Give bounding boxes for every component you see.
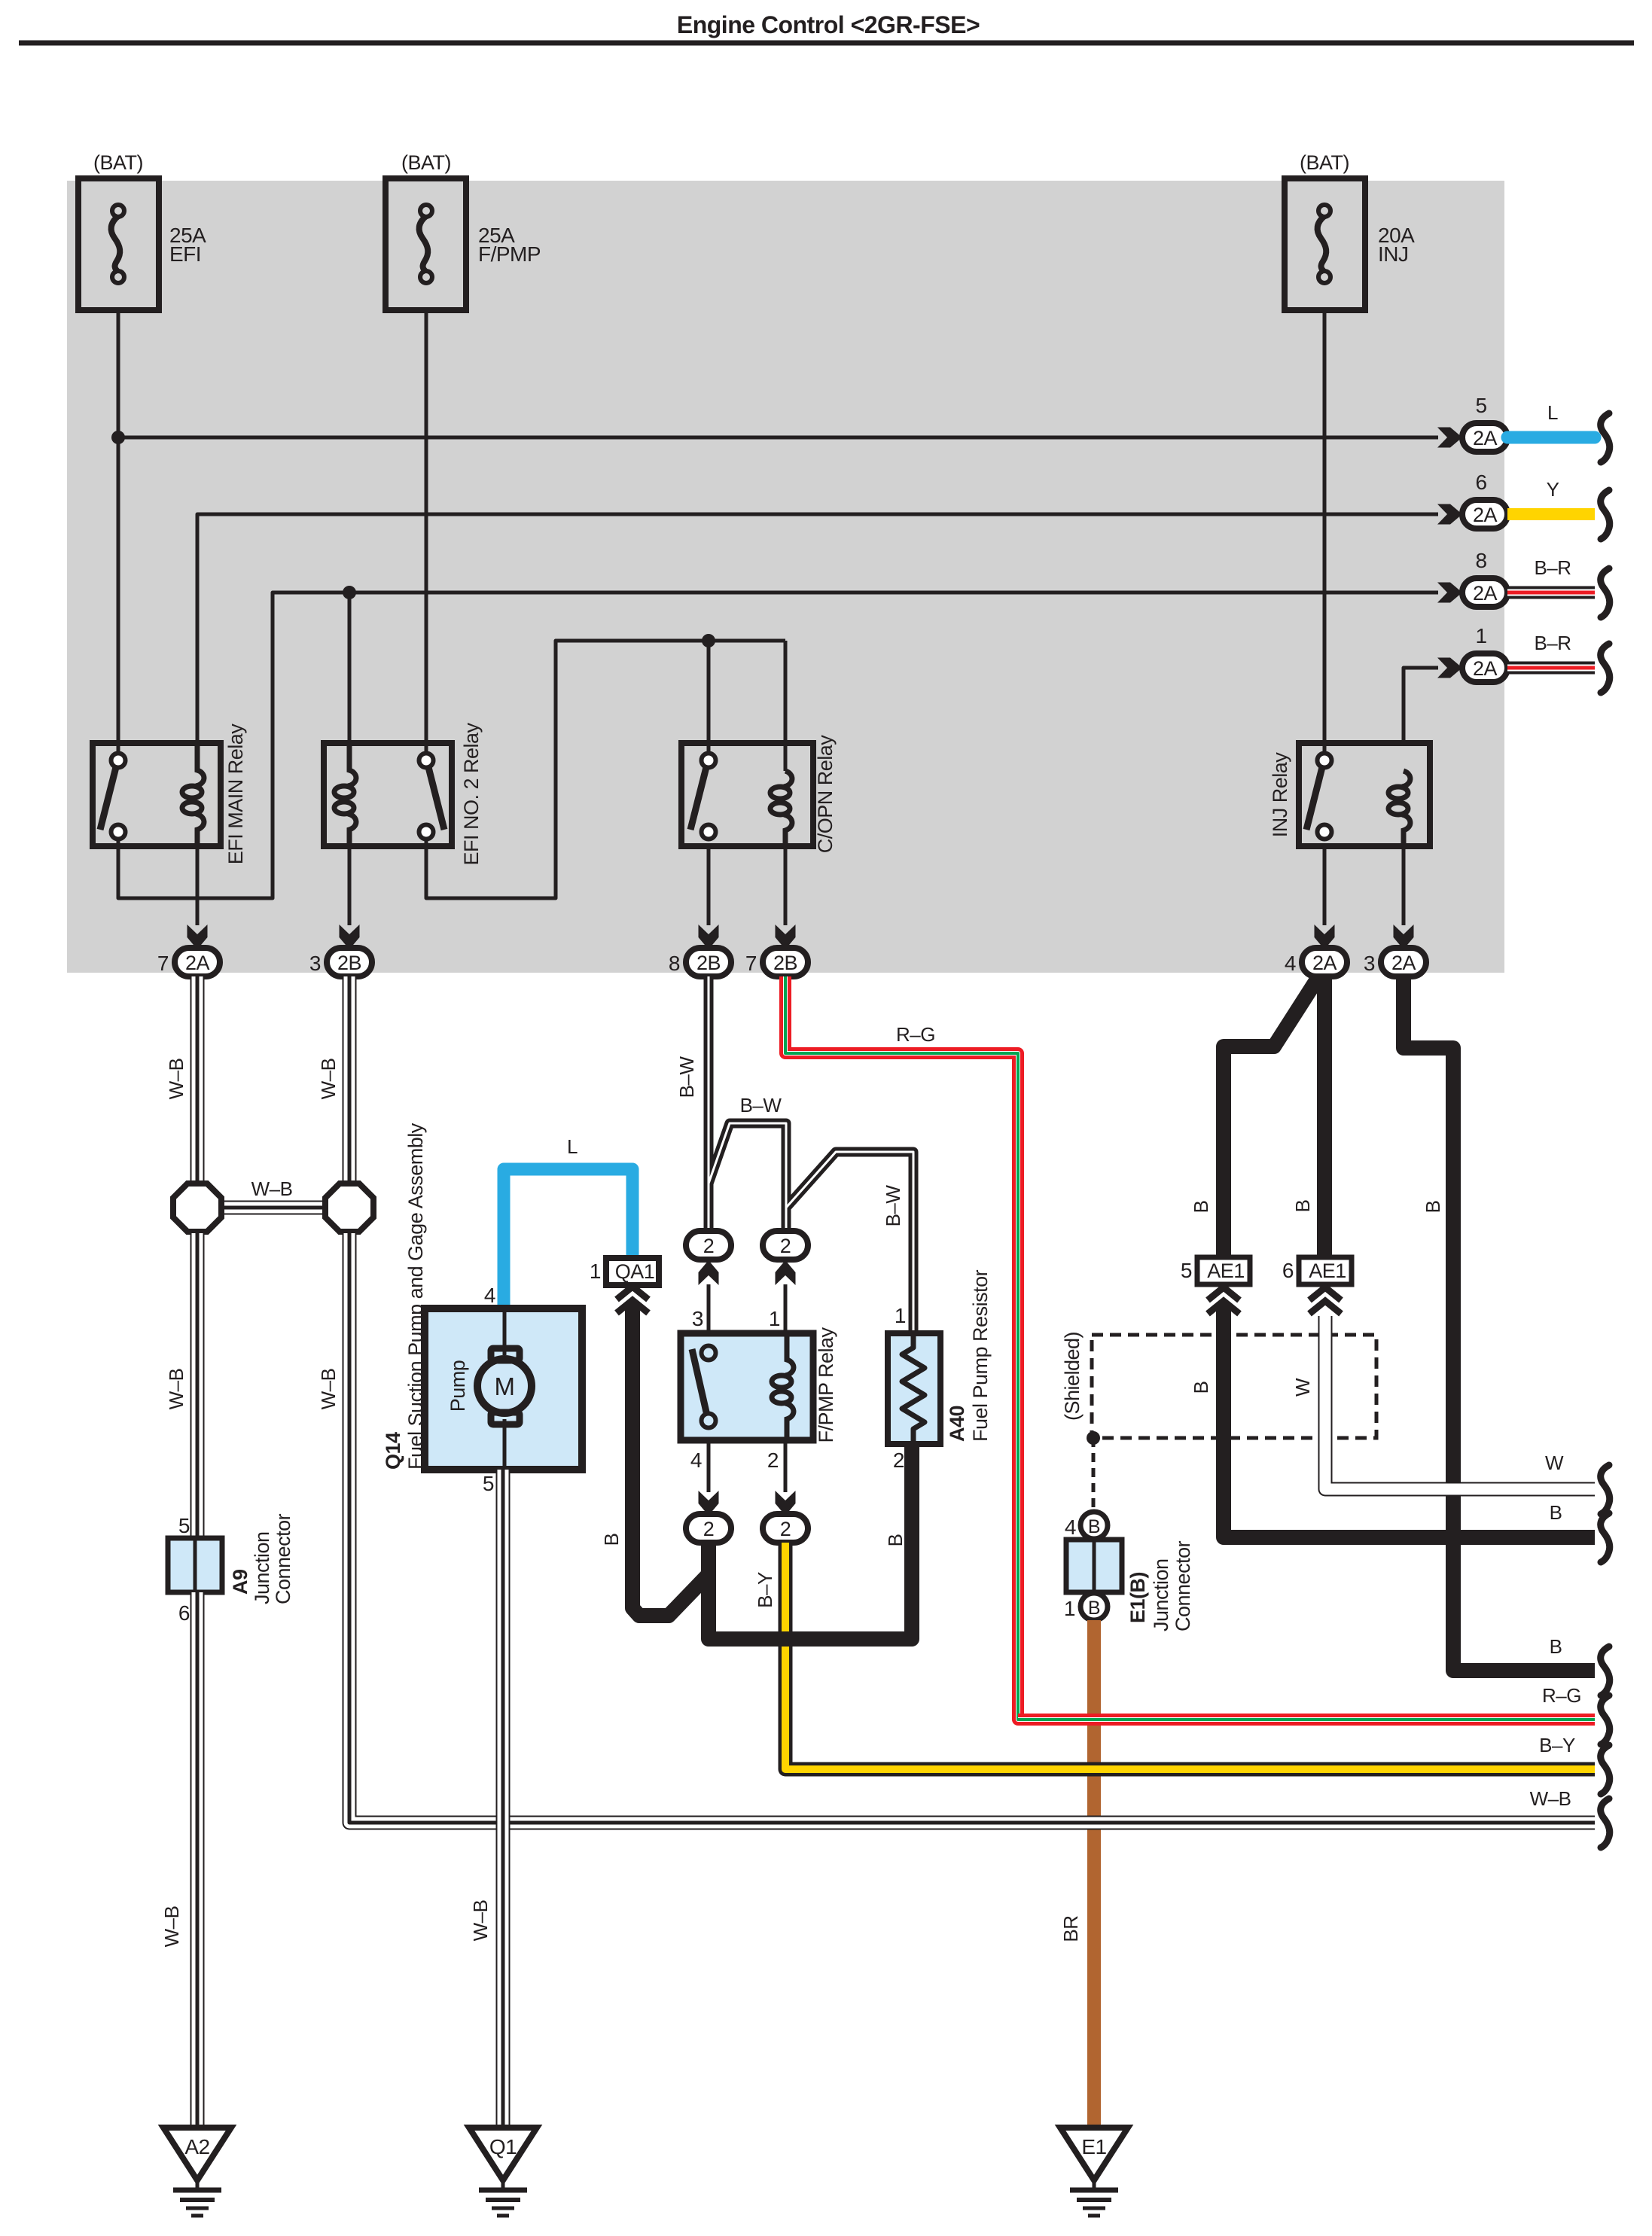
svg-text:1: 1 (769, 1307, 780, 1330)
svg-text:R–G: R–G (1542, 1684, 1581, 1707)
wire A40 internal top (911, 1333, 916, 1348)
svg-text:2B: 2B (773, 952, 797, 974)
svg-text:INJ Relay: INJ Relay (1269, 752, 1291, 838)
svg-text:2: 2 (703, 1235, 715, 1257)
label (BAT) F/PMP fuse (401, 151, 451, 174)
curly B-Y output (1601, 1745, 1610, 1794)
engine-room junction block (gray area) (67, 181, 1504, 973)
wire L (blue) pin 5 (1507, 431, 1595, 444)
curly pin 1 (1601, 644, 1610, 693)
connector pin 3 2A (1364, 948, 1426, 976)
wire EFI fuse to EFI MAIN relay switch (117, 310, 120, 760)
curly pin 8 (1601, 568, 1610, 617)
label R-G output (1542, 1684, 1581, 1707)
wire EFI NO.2 coil feed (348, 593, 352, 743)
arrow into pin 6 2A (1437, 504, 1462, 525)
wire EFI MAIN switch out to pin 8 2A (118, 593, 1438, 898)
relay F/PMP coil (772, 1333, 794, 1440)
label pin 5 Q14 (483, 1472, 494, 1495)
svg-text:E1: E1 (1081, 2135, 1106, 2158)
node EFI NO.2 coil branch (343, 586, 356, 599)
wire F/PMP pin 2 down (784, 1440, 788, 1492)
label B output (1550, 1635, 1562, 1658)
wire W-B between octagons (222, 1201, 324, 1215)
ground A2 (163, 2128, 231, 2216)
svg-text:B: B (1088, 1516, 1100, 1537)
fuse 25A F/PMP (386, 178, 541, 310)
wire W-B over BR (888, 1816, 1595, 1830)
svg-text:E1(B): E1(B) (1126, 1572, 1149, 1623)
svg-text:B: B (1291, 1200, 1314, 1213)
arrow into 3 2A (1394, 925, 1414, 949)
relay EFI MAIN switch (100, 754, 126, 839)
connector 2 (F/PMP pin 3) (686, 1231, 731, 1260)
svg-text:C/OPN Relay: C/OPN Relay (814, 735, 837, 854)
svg-text:AE1: AE1 (1309, 1260, 1346, 1282)
relay INJ switch (1306, 754, 1332, 839)
ground E1 (1060, 2128, 1128, 2216)
label W-B (317, 1369, 340, 1410)
svg-text:Junction: Junction (251, 1531, 273, 1604)
svg-text:3: 3 (1364, 952, 1375, 975)
wire relay out to pin 3 2A (1402, 846, 1406, 925)
svg-text:B–W: B–W (675, 1056, 698, 1098)
wire B-W 8 2B to F/PMP relay pin 3 connector (with branches to pin 1 and A40) (709, 976, 913, 1336)
svg-text:1: 1 (590, 1260, 601, 1283)
svg-text:Q1: Q1 (489, 2135, 517, 2158)
label (Shielded) (1061, 1332, 1084, 1421)
wire C/OPN coil feed (784, 641, 788, 771)
svg-text:7: 7 (745, 952, 757, 975)
svg-text:Junction: Junction (1150, 1558, 1172, 1631)
connector QA1 (590, 1258, 659, 1285)
svg-text:(BAT): (BAT) (401, 151, 451, 174)
svg-text:7: 7 (157, 952, 169, 975)
svg-text:2A: 2A (1391, 952, 1416, 974)
svg-text:2A: 2A (1312, 952, 1337, 974)
svg-text:6: 6 (178, 1601, 190, 1625)
svg-text:W–B: W–B (165, 1059, 187, 1100)
arrow chevrons QA1 (617, 1287, 648, 1313)
arrow chevrons 5 AE1 (1208, 1287, 1239, 1314)
wire W 6 AE1 to W output (1325, 1316, 1595, 1489)
wire relay out to pin 3 2B (348, 846, 352, 925)
label INJ Relay (1269, 752, 1291, 838)
svg-text:5: 5 (1181, 1259, 1192, 1282)
wire R-G over BR (1018, 1714, 1595, 1726)
svg-text:B–Y: B–Y (1539, 1734, 1575, 1756)
connector 6 AE1 (1282, 1257, 1352, 1284)
wire R-G 7 2B to output (785, 976, 1595, 1720)
curly B output (1601, 1647, 1610, 1695)
arrow chevrons 6 AE1 (1309, 1287, 1341, 1314)
relay INJ (box) (1299, 743, 1430, 846)
relay EFI NO. 2 (box) (324, 743, 452, 846)
arrow into 7 2A (187, 925, 208, 949)
svg-text:2A: 2A (185, 952, 210, 974)
wire B-Y over BR (888, 1762, 1595, 1777)
junction connector E1(B) (1066, 1540, 1122, 1592)
svg-text:Connector: Connector (272, 1513, 294, 1604)
svg-text:EFI: EFI (169, 242, 201, 266)
wire F/PMP pin 4 down (707, 1440, 711, 1492)
wire relay out to pin 4 2A (1323, 846, 1327, 925)
resistor zigzag A40 (902, 1336, 925, 1442)
svg-text:Fuel Pump Resistor: Fuel Pump Resistor (969, 1269, 992, 1442)
arrow into 2 (699, 1491, 719, 1516)
label Pump (447, 1360, 469, 1412)
svg-text:W–B: W–B (317, 1059, 340, 1100)
component A40 Fuel Pump Resistor (box) (888, 1333, 940, 1444)
svg-text:1: 1 (895, 1304, 906, 1327)
svg-text:F/PMP: F/PMP (478, 242, 541, 266)
label W-B (251, 1177, 293, 1200)
wire EFI NO.2 switch out to C/OPN relay (426, 641, 785, 898)
label B-W (882, 1185, 904, 1227)
label (BAT) EFI fuse (93, 151, 143, 174)
wire to pin 5 2A (118, 436, 1438, 440)
svg-text:W–B: W–B (317, 1369, 340, 1410)
svg-text:F/PMP Relay: F/PMP Relay (815, 1327, 837, 1442)
svg-text:Connector: Connector (1172, 1540, 1194, 1631)
label R-G (896, 1023, 935, 1046)
label Q14 name (382, 1123, 427, 1470)
wire C/OPN switch feed (707, 641, 711, 760)
pin 4 B circle (1065, 1512, 1108, 1539)
wire W-B A9 to ground A2 (190, 1592, 205, 2127)
wire W-B pump over crossing (496, 1799, 511, 1852)
svg-text:W–B: W–B (165, 1369, 187, 1410)
label pin 3 F/PMP relay (692, 1307, 703, 1330)
node EFI fuse branch (111, 431, 125, 444)
label W-B (160, 1906, 183, 1948)
arrow into pin 8 2A (1437, 583, 1462, 603)
wire W-B from 3 2B to octagon (343, 976, 357, 1182)
wire B 4 2A to 6 AE1 (1317, 976, 1332, 1257)
svg-text:8: 8 (1475, 549, 1486, 572)
wire INJ coil to pin 1 2A (1404, 668, 1438, 743)
svg-text:BR: BR (1059, 1915, 1082, 1942)
label C/OPN Relay (814, 735, 837, 854)
svg-text:Y: Y (1547, 478, 1559, 501)
connector 5 AE1 (1181, 1257, 1250, 1284)
label pin 1 F/PMP relay (769, 1307, 780, 1330)
label W (1291, 1378, 1314, 1397)
connector pin 8 2B (669, 948, 731, 976)
svg-text:2: 2 (703, 1518, 715, 1540)
arrow into 2 (776, 1260, 796, 1285)
svg-text:W–B: W–B (251, 1177, 293, 1200)
arrow into pin 5 2A (1437, 428, 1462, 448)
svg-text:(BAT): (BAT) (1300, 151, 1349, 174)
connector 2 (F/PMP pin 2) (763, 1514, 808, 1543)
wire B QA1 down-around to F/PMP pin 4 connector (632, 1304, 711, 1616)
connector pin 5 2A (1462, 394, 1507, 452)
node C/OPN switch branch (702, 634, 715, 647)
svg-text:4: 4 (484, 1284, 495, 1307)
svg-text:B–R: B–R (1534, 632, 1571, 654)
svg-text:W–B: W–B (160, 1906, 183, 1948)
svg-text:5: 5 (483, 1472, 494, 1495)
wire dashed shield to E1(B) (1092, 1438, 1096, 1511)
label W-B (317, 1059, 340, 1100)
svg-text:AE1: AE1 (1207, 1260, 1245, 1282)
svg-text:B: B (1190, 1382, 1212, 1394)
wire relay out to pin 8 2B (707, 846, 711, 925)
octagon connector left (173, 1183, 221, 1232)
wire relay out to pin 7 2B (784, 846, 788, 925)
label E1(B) Junction Connector (1126, 1540, 1194, 1631)
svg-text:B: B (884, 1534, 907, 1547)
wire Y (yellow) pin 6 (1507, 508, 1595, 520)
wire pump internal (503, 1308, 507, 1470)
arrow into 3 2B (340, 925, 360, 949)
label pin 2 A40 (893, 1449, 904, 1472)
label BR (1059, 1915, 1082, 1942)
svg-text:4: 4 (1065, 1516, 1076, 1539)
svg-text:EFI NO. 2 Relay: EFI NO. 2 Relay (460, 722, 483, 865)
wire W-B octagon to A9 (190, 1233, 205, 1540)
relay C/OPN (box) (681, 743, 813, 846)
svg-text:3: 3 (692, 1307, 703, 1330)
connector 2 (F/PMP pin 4) (686, 1514, 731, 1543)
label EFI NO. 2 Relay (460, 722, 483, 865)
svg-text:M: M (495, 1372, 515, 1400)
svg-text:B: B (600, 1534, 623, 1546)
relay EFI MAIN coil (182, 743, 204, 846)
wire relay out to pin 7 2A (196, 846, 200, 925)
wire EFI MAIN coil to pin 6 2A (197, 514, 1438, 743)
curly pin 6 (1601, 490, 1610, 539)
svg-text:A2: A2 (184, 2135, 209, 2158)
node shield ground tap (1087, 1431, 1100, 1445)
svg-text:R–G: R–G (896, 1023, 935, 1046)
arrow into 4 2A (1315, 925, 1335, 949)
arrow into 8 2B (699, 925, 719, 949)
svg-text:4: 4 (690, 1449, 702, 1472)
wire L (blue) pump to QA1 (504, 1169, 632, 1308)
svg-text:A40: A40 (946, 1406, 968, 1442)
svg-text:B–Y: B–Y (754, 1572, 776, 1608)
svg-text:8: 8 (669, 952, 680, 975)
label Y (1547, 478, 1559, 501)
svg-text:1: 1 (1475, 624, 1486, 647)
wire to F/PMP relay pin 3 (707, 1284, 711, 1353)
label B-R pin 1 (1534, 632, 1571, 654)
svg-text:EFI MAIN Relay: EFI MAIN Relay (224, 724, 247, 865)
component Q14 Fuel Suction Pump and Gage Assembly (box) (425, 1308, 582, 1470)
connector 2 (F/PMP pin 1) (763, 1231, 808, 1260)
svg-text:6: 6 (1282, 1259, 1294, 1282)
wire INJ fuse to INJ relay switch (1323, 310, 1327, 760)
ground Q1 (469, 2128, 537, 2216)
label B (1190, 1382, 1212, 1394)
title rule (19, 41, 1634, 46)
arrow into 2 (699, 1260, 719, 1285)
label B-W (740, 1094, 782, 1116)
svg-text:B: B (1422, 1201, 1444, 1214)
shielded box (dashed) (1092, 1335, 1376, 1438)
svg-text:W: W (1291, 1378, 1314, 1397)
svg-text:2A: 2A (1473, 427, 1498, 449)
connector pin 1 2A (1462, 624, 1507, 682)
label A9 pins (178, 1514, 190, 1625)
curly W output (1601, 1465, 1610, 1514)
arrow into 7 2B (776, 925, 796, 949)
svg-text:L: L (1547, 401, 1558, 424)
label pin 1 A40 (895, 1304, 906, 1327)
wire B-Y to output (785, 1543, 1595, 1769)
svg-text:B: B (1190, 1201, 1212, 1214)
svg-text:QA1: QA1 (615, 1260, 655, 1283)
label B-W (675, 1056, 698, 1098)
relay F/PMP switch (692, 1346, 716, 1428)
wire W-B right octagon to W-B output (349, 1233, 1595, 1823)
label EFI MAIN Relay (224, 724, 247, 865)
svg-text:2A: 2A (1473, 504, 1498, 526)
pin 1 B circle (1064, 1593, 1108, 1620)
relay EFI MAIN (box) (93, 743, 221, 846)
svg-text:L: L (567, 1135, 578, 1158)
title (677, 11, 980, 38)
label W-B (165, 1369, 187, 1410)
label B-Y output (1539, 1734, 1575, 1756)
svg-text:Pump: Pump (447, 1360, 469, 1412)
relay INJ coil (1388, 771, 1410, 846)
svg-text:5: 5 (178, 1514, 190, 1537)
label pin 2 F/PMP relay (767, 1449, 779, 1472)
svg-text:B: B (1550, 1635, 1562, 1658)
label W-B (165, 1059, 187, 1100)
label B output (1550, 1501, 1562, 1524)
svg-text:1: 1 (1064, 1597, 1075, 1620)
svg-text:2: 2 (767, 1449, 779, 1472)
wire B-R pin 8 (1507, 586, 1595, 599)
svg-text:Engine Control <2GR-FSE>: Engine Control <2GR-FSE> (677, 11, 980, 38)
svg-text:2: 2 (780, 1518, 791, 1540)
label B (884, 1534, 907, 1547)
label B (600, 1534, 623, 1546)
connector pin 6 2A (1462, 471, 1507, 529)
label L (567, 1135, 578, 1158)
svg-text:W–B: W–B (469, 1900, 492, 1942)
label B (1190, 1201, 1212, 1214)
label F/PMP Relay (815, 1327, 837, 1442)
svg-text:A9: A9 (229, 1569, 251, 1595)
svg-text:B: B (1088, 1598, 1100, 1619)
relay C/OPN coil (770, 771, 792, 846)
wire B 4 2A to 5 AE1 (1224, 979, 1317, 1257)
svg-text:2A: 2A (1473, 657, 1498, 680)
wire B 5 AE1 to B output (1224, 1302, 1595, 1537)
label A40 name (946, 1269, 992, 1442)
label B (1291, 1200, 1314, 1213)
label pin 4 F/PMP relay (690, 1449, 702, 1472)
svg-text:(BAT): (BAT) (93, 151, 143, 174)
fuse 25A EFI (78, 178, 206, 310)
svg-text:W: W (1545, 1452, 1564, 1474)
label W-B output (1530, 1787, 1571, 1810)
svg-text:B–R: B–R (1534, 556, 1571, 579)
curly W-B output (1601, 1799, 1610, 1848)
wire W-B pump to ground Q1 (496, 1470, 511, 2127)
octagon connector right (325, 1183, 373, 1232)
label W output (1545, 1452, 1564, 1474)
svg-text:B–W: B–W (882, 1185, 904, 1227)
junction connector A9 (168, 1538, 222, 1592)
label B-Y (754, 1572, 776, 1608)
svg-text:(Shielded): (Shielded) (1061, 1332, 1084, 1421)
curly pin 5 (1601, 413, 1610, 462)
svg-text:2: 2 (893, 1449, 904, 1472)
svg-text:2: 2 (780, 1235, 791, 1257)
relay EFI NO. 2 switch (419, 754, 445, 839)
arrow into pin 1 2A (1437, 658, 1462, 678)
connector pin 7 2B (745, 948, 808, 976)
label (BAT) INJ fuse (1300, 151, 1349, 174)
wire BR E1(B) to ground E1 (1087, 1620, 1101, 2127)
curly R-G output (1601, 1695, 1610, 1744)
connector pin 7 2A (157, 948, 220, 976)
label B-R pin 8 (1534, 556, 1571, 579)
svg-text:B: B (1550, 1501, 1562, 1524)
wire F/PMP fuse to EFI NO.2 relay switch (425, 310, 428, 760)
wire B-R pin 1 (1507, 662, 1595, 675)
connector pin 4 2A (1285, 948, 1347, 976)
svg-text:4: 4 (1285, 952, 1296, 975)
connector pin 3 2B (309, 948, 372, 976)
svg-text:2B: 2B (696, 952, 721, 974)
svg-text:INJ: INJ (1378, 242, 1409, 266)
svg-text:B–W: B–W (740, 1094, 782, 1116)
relay EFI NO. 2 coil (334, 743, 356, 846)
relay C/OPN switch (690, 754, 716, 839)
wire B 3 2A to B output (1404, 976, 1595, 1671)
svg-text:3: 3 (309, 952, 321, 975)
svg-text:2A: 2A (1473, 582, 1498, 605)
wire B pin4-connector to A40 pin 2 (709, 1442, 912, 1639)
fuse 20A INJ (1285, 178, 1415, 310)
label B (1422, 1201, 1444, 1214)
svg-text:6: 6 (1475, 471, 1486, 494)
label W-B (469, 1900, 492, 1942)
arrow into 2 (776, 1491, 796, 1516)
curly B output (1601, 1513, 1610, 1562)
svg-text:2B: 2B (337, 952, 361, 974)
svg-text:Fuel Suction Pump and Gage Ass: Fuel Suction Pump and Gage Assembly (404, 1123, 427, 1470)
wire W-B from 7 2A to octagon (190, 976, 205, 1182)
pump motor M (477, 1348, 532, 1424)
label pin 4 Q14 (484, 1284, 495, 1307)
svg-text:5: 5 (1475, 394, 1486, 417)
svg-text:Q14: Q14 (382, 1432, 404, 1470)
relay F/PMP (box) (681, 1333, 813, 1440)
label A9 Junction Connector (229, 1513, 294, 1604)
connector pin 8 2A (1462, 549, 1507, 607)
wire to F/PMP relay pin 1 (784, 1284, 788, 1333)
svg-text:W–B: W–B (1530, 1787, 1571, 1810)
label L (1547, 401, 1558, 424)
